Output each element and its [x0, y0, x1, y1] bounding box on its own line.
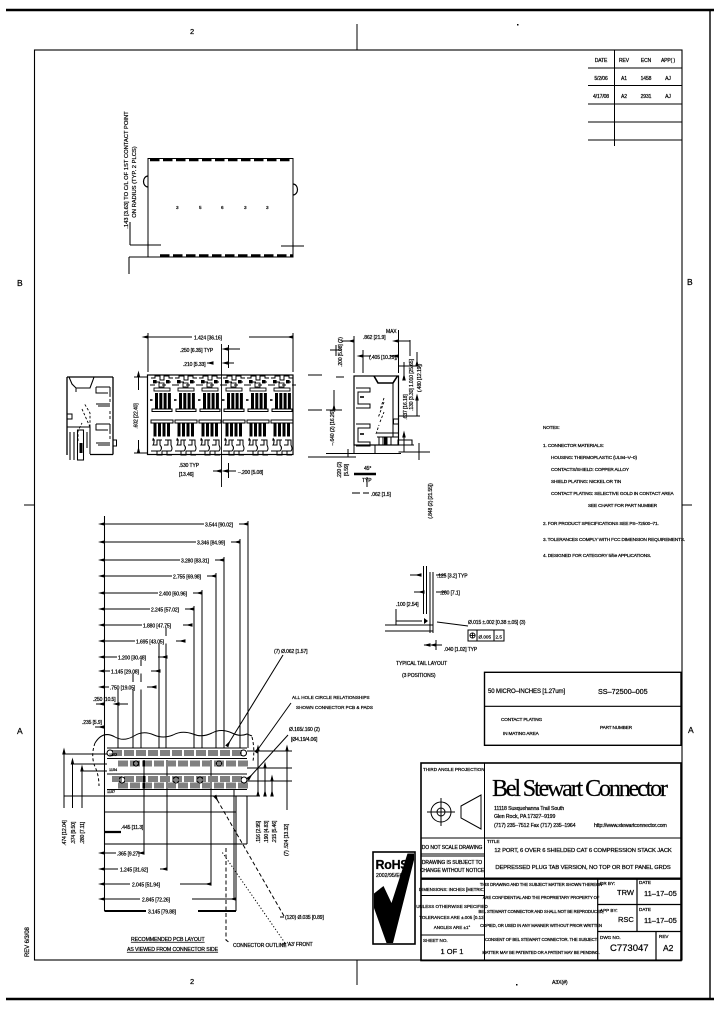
svg-text:4. DESIGNED FOR CATEGORY 5/5e: 4. DESIGNED FOR CATEGORY 5/5e APPLICATIO… [543, 553, 651, 558]
svg-text:TRW: TRW [617, 888, 635, 897]
PCB stacked width dimensions [82, 519, 248, 748]
svg-text:MATTER MAY BE PATENTED OR A PA: MATTER MAY BE PATENTED OR A PATENT MAY B… [482, 950, 599, 955]
svg-text:CONSENT OF BEL STEWART CONNECT: CONSENT OF BEL STEWART CONNECTOR. THE SU… [485, 937, 598, 942]
svg-text:11–17–05: 11–17–05 [644, 916, 677, 925]
svg-text:COPIED, OR USED IN ANY MANNER: COPIED, OR USED IN ANY MANNER WITHOUT PR… [480, 923, 602, 928]
svg-text:5: 5 [199, 205, 202, 210]
svg-text:.200 [5.08] (2): .200 [5.08] (2) [338, 337, 344, 367]
svg-text:.125 [3.2] TYP: .125 [3.2] TYP [437, 574, 468, 580]
svg-text:2.245 [57.02]: 2.245 [57.02] [151, 608, 180, 614]
svg-text:AJ: AJ [665, 76, 671, 82]
svg-text:3: 3 [244, 205, 247, 210]
svg-text:2.5: 2.5 [496, 635, 503, 640]
pad band 2 plated holes [119, 777, 125, 783]
svg-text:.220 (2): .220 (2) [337, 461, 343, 478]
svg-text:THIS DRAWING AND THE SUBJECT M: THIS DRAWING AND THE SUBJECT MATTER SHOW… [480, 882, 602, 887]
svg-text:DIMENSIONS: INCHES [METRIC]: DIMENSIONS: INCHES [METRIC] [419, 887, 485, 892]
svg-text:Glen Rock, PA 17327–9199: Glen Rock, PA 17327–9199 [494, 814, 555, 820]
svg-text:NOTES:: NOTES: [543, 425, 560, 430]
title block main box [421, 763, 681, 961]
svg-text:TITLE: TITLE [487, 839, 500, 844]
svg-text:RSC: RSC [618, 915, 634, 924]
svg-text:ALL HOLE CIRCLE RELATIONSHIPS: ALL HOLE CIRCLE RELATIONSHIPS [292, 695, 370, 700]
svg-text:6: 6 [221, 205, 224, 210]
svg-text:2.045 [51.94]: 2.045 [51.94] [132, 883, 161, 889]
svg-text:A2: A2 [621, 94, 627, 100]
pad band 1 plated holes [107, 750, 113, 756]
svg-text:.100 [2.54]: .100 [2.54] [396, 602, 419, 608]
svg-text:(7) .524 [13.32]: (7) .524 [13.32] [284, 823, 290, 856]
svg-text:(.848 (2) [21.55]): (.848 (2) [21.55]) [428, 483, 434, 519]
svg-text:.445 [11.3]: .445 [11.3] [121, 825, 144, 831]
svg-text:.365 [9.27]: .365 [9.27] [117, 852, 140, 858]
svg-text:Ø.005: Ø.005 [479, 635, 492, 640]
svg-text:SHEET NO.: SHEET NO. [423, 938, 448, 943]
svg-text:'A3' FRONT: 'A3' FRONT [287, 942, 313, 948]
right side view top dims [330, 330, 410, 373]
svg-text:.862 [21.9]: .862 [21.9] [363, 335, 386, 341]
svg-text:(3 POSITIONS): (3 POSITIONS) [402, 673, 436, 679]
svg-text:SHOWN CONNECTOR PCB & PADS: SHOWN CONNECTOR PCB & PADS [296, 705, 373, 710]
svg-text:45°: 45° [364, 466, 371, 472]
svg-text:.602 [22.40]: .602 [22.40] [134, 403, 140, 429]
NOTES [543, 425, 685, 558]
svg-text:(.480 [12.19]): (.480 [12.19]) [417, 363, 423, 392]
PCB right vertical dims [247, 751, 292, 810]
svg-text:1. CONNECTOR MATERIALS:: 1. CONNECTOR MATERIALS: [543, 443, 604, 448]
svg-text:2002/95/EC: 2002/95/EC [376, 873, 404, 879]
front view centerline [221, 344, 223, 487]
svg-text:.215 [5.46]: .215 [5.46] [272, 820, 278, 843]
svg-text:.280 [7.11]: .280 [7.11] [80, 821, 86, 844]
svg-text:TYPICAL TAIL LAYOUT: TYPICAL TAIL LAYOUT [396, 661, 447, 667]
svg-text:.474 [12.04]: .474 [12.04] [62, 820, 68, 846]
top view dimension ticks [129, 222, 304, 274]
svg-text:MAX: MAX [386, 329, 397, 335]
svg-text:DATE: DATE [639, 907, 651, 912]
svg-text:SEE CHART FOR PART NUMBER: SEE CHART FOR PART NUMBER [588, 503, 658, 508]
left side view [67, 377, 117, 460]
svg-text:C773047: C773047 [610, 943, 649, 954]
svg-text:(120) Ø.035 [0.89]: (120) Ø.035 [0.89] [285, 915, 324, 921]
tail GD&T frame [468, 630, 504, 641]
svg-text:TOLERANCES ARE ±.005 [0.13]: TOLERANCES ARE ±.005 [0.13] [419, 915, 485, 920]
projection symbol [427, 795, 481, 829]
svg-text:11–17–05: 11–17–05 [644, 889, 677, 898]
svg-text:CONTACT PLATING: CONTACT PLATING [501, 717, 542, 722]
PCB bottom dimensions [105, 760, 237, 911]
svg-text:THIRD ANGLE PROJECTION: THIRD ANGLE PROJECTION [423, 767, 485, 772]
svg-text:DWG NO.: DWG NO. [600, 935, 621, 940]
svg-text:DATE: DATE [639, 880, 651, 885]
PCB connector outline wavy break line [95, 731, 252, 744]
svg-text:CONTACTS/SHIELD: COPPER ALLOY: CONTACTS/SHIELD: COPPER ALLOY [551, 467, 630, 472]
svg-text:12 PORT, 6 OVER 6 SHIELDED CAT: 12 PORT, 6 OVER 6 SHIELDED CAT 6 COMPRES… [494, 848, 672, 854]
svg-text:.250 [10.5]: .250 [10.5] [93, 697, 116, 703]
svg-text:1.880 [47.75]: 1.880 [47.75] [143, 624, 172, 630]
svg-text:1.695 [43.05]: 1.695 [43.05] [136, 640, 165, 646]
svg-text:APP BY:: APP BY: [600, 908, 618, 913]
svg-text:.235 [5.9]: .235 [5.9] [82, 720, 103, 726]
svg-text:A: A [17, 726, 23, 736]
top view pin marks [176, 205, 269, 210]
RoHS logo [373, 852, 415, 944]
svg-text:2931: 2931 [641, 94, 652, 100]
plating chart box [485, 672, 682, 745]
svg-text:[13.46]: [13.46] [179, 472, 194, 478]
front view width dimension [148, 333, 293, 372]
svg-text:50 MICRO–INCHES [1.27um]: 50 MICRO–INCHES [1.27um] [488, 689, 565, 695]
svg-text:REV: REV [619, 58, 630, 64]
svg-text:.374 [9.50]: .374 [9.50] [71, 821, 77, 844]
svg-text:Bel Stewart Connector: Bel Stewart Connector [492, 776, 668, 802]
svg-text:.040 [1.02] TYP: .040 [1.02] TYP [444, 647, 478, 653]
svg-text:2.845 [72.26]: 2.845 [72.26] [142, 898, 171, 904]
svg-text:1.200 [30.48]: 1.200 [30.48] [118, 656, 147, 662]
svg-text:4/17/08: 4/17/08 [593, 94, 609, 100]
svg-text:(.405 [10.29]): (.405 [10.29]) [369, 355, 398, 361]
svg-text:3.145 [79.88]: 3.145 [79.88] [148, 910, 177, 916]
svg-text:3.544 [90.02]: 3.544 [90.02] [205, 523, 234, 529]
svg-text:.116 [2.95]: .116 [2.95] [256, 820, 262, 843]
svg-text:1157: 1157 [109, 753, 117, 757]
svg-text:DEPRESSED PLUG TAB VERSION, NO: DEPRESSED PLUG TAB VERSION, NO TOP OR BO… [495, 865, 670, 871]
svg-text:APP( ): APP( ) [661, 58, 676, 64]
svg-text:3.346 [84.99]: 3.346 [84.99] [197, 541, 226, 547]
svg-text:3.280 [83.31]: 3.280 [83.31] [181, 559, 210, 565]
svg-text:AJ: AJ [665, 94, 671, 100]
svg-text:ECN: ECN [641, 58, 652, 64]
svg-text:2.755 [69.98]: 2.755 [69.98] [173, 575, 202, 581]
PCB pad band 2 [107, 774, 247, 790]
svg-text:3. TOLERANCES COMPLY WITH FCC: 3. TOLERANCES COMPLY WITH FCC DIMENSION … [543, 537, 685, 542]
svg-text:A2: A2 [663, 943, 674, 953]
PCB left vertical dims [64, 754, 260, 808]
right side view bottom dims [354, 473, 376, 475]
svg-text:.250 [6.35] TYP: .250 [6.35] TYP [180, 348, 214, 354]
svg-text:http://www.stewartconnector.co: http://www.stewartconnector.com [594, 823, 667, 829]
svg-text:REV: REV [659, 934, 669, 939]
PCB connector outline rectangle [105, 796, 248, 844]
svg-text:ANGLES ARE ±1°: ANGLES ARE ±1° [434, 925, 471, 930]
svg-text:1.145 [29.08]: 1.145 [29.08] [111, 670, 140, 676]
svg-text:A: A [688, 725, 694, 735]
svg-text:REV 6/3/08: REV 6/3/08 [25, 927, 31, 957]
svg-text:.530 TYP: .530 TYP [179, 463, 200, 469]
svg-text:1.424 [36.16]: 1.424 [36.16] [194, 336, 223, 342]
svg-text:DATE: DATE [595, 58, 608, 64]
svg-text:5/2/06: 5/2/06 [594, 76, 608, 82]
svg-text:AS VIEWED FROM CONNECTOR SIDE: AS VIEWED FROM CONNECTOR SIDE [127, 947, 219, 953]
svg-text:2.400 [60.96]: 2.400 [60.96] [159, 592, 188, 598]
PCB pad band 1 [107, 748, 247, 759]
front view body [148, 375, 294, 455]
svg-text:Ø.165/.160 (2): Ø.165/.160 (2) [289, 727, 320, 733]
svg-text:2. FOR PRODUCT SPECIFICATIONS: 2. FOR PRODUCT SPECIFICATIONS SEE PS–725… [543, 521, 659, 526]
svg-text:.210 [5.33]: .210 [5.33] [183, 362, 206, 368]
svg-text:11118 Susquehanna Trail South: 11118 Susquehanna Trail South [494, 806, 564, 812]
tail detail [385, 566, 468, 650]
front view height dimension .602 [134, 376, 147, 378]
svg-text:.062 [1.5]: .062 [1.5] [371, 492, 392, 498]
svg-text:SS–72500–005: SS–72500–005 [598, 687, 648, 696]
legal disclaimer [479, 882, 604, 955]
svg-text:ON RADIUS (TYP. 2 PLCS): ON RADIUS (TYP. 2 PLCS) [132, 146, 138, 217]
svg-text:1154: 1154 [109, 768, 117, 772]
svg-text:CHANGE WITHOUT NOTICE: CHANGE WITHOUT NOTICE [420, 868, 485, 874]
PCB layout: left baseline extension [104, 516, 106, 911]
svg-text:DRAWING IS SUBJECT TO: DRAWING IS SUBJECT TO [422, 860, 482, 866]
right side view body [354, 376, 414, 454]
svg-text:1 OF 1: 1 OF 1 [441, 947, 464, 956]
top view rectangle [144, 159, 298, 258]
svg-text:CONNECTOR OUTLINE: CONNECTOR OUTLINE [233, 943, 287, 949]
svg-text:[5.59]: [5.59] [344, 463, 350, 476]
svg-text:2: 2 [190, 27, 194, 36]
svg-text:Ø.015 ±.002 [0.38 ±.05] (3): Ø.015 ±.002 [0.38 ±.05] (3) [468, 620, 526, 626]
svg-text:–.640 (2) [16.26]: –.640 (2) [16.26] [330, 410, 336, 446]
svg-text:RECOMMENDED PCB LAYOUT: RECOMMENDED PCB LAYOUT [131, 937, 205, 943]
svg-text:.750 [19.05]: .750 [19.05] [110, 686, 136, 692]
svg-text:1157: 1157 [107, 790, 115, 794]
svg-text:DO NOT SCALE DRAWING: DO NOT SCALE DRAWING [422, 845, 483, 851]
svg-text:.280 [7.1]: .280 [7.1] [440, 591, 461, 597]
svg-text:A1: A1 [621, 76, 627, 82]
svg-text:IN MATING AREA: IN MATING AREA [503, 731, 540, 736]
svg-text:2: 2 [190, 977, 194, 986]
svg-text:HOUSING: THERMOPLASTIC (UL94–: HOUSING: THERMOPLASTIC (UL94–V–0) [551, 455, 637, 460]
svg-text:3: 3 [176, 205, 179, 210]
svg-text:B: B [17, 278, 23, 288]
svg-text:.143 [3.63] TO C/L OF 1ST CONT: .143 [3.63] TO C/L OF 1ST CONTACT POINT [124, 111, 130, 229]
svg-text:(717) 235–7512 Fax (717) 235: (717) 235–7512 Fax (717) 235–1964 [494, 823, 576, 829]
svg-text:3: 3 [266, 205, 269, 210]
svg-text:.190 [4.83]: .190 [4.83] [264, 820, 270, 843]
svg-text:1.245 [31.62]: 1.245 [31.62] [120, 868, 149, 874]
svg-text:DR BY:: DR BY: [600, 881, 615, 886]
revision table [588, 50, 682, 146]
svg-text:PART NUMBER: PART NUMBER [600, 725, 633, 730]
svg-text:ARE CONFIDENTIAL AND THE PROPR: ARE CONFIDENTIAL AND THE PROPRIETARY PRO… [483, 895, 600, 900]
svg-text:B: B [687, 277, 693, 287]
svg-text:SHIELD PLATING: NICKEL OR TIN: SHIELD PLATING: NICKEL OR TIN [551, 479, 621, 484]
svg-text:[Ø4.19/4.06]: [Ø4.19/4.06] [291, 737, 318, 743]
svg-text:A3X(#): A3X(#) [552, 980, 568, 986]
svg-text:CONTACT PLATING: SELECTIVE GO: CONTACT PLATING: SELECTIVE GOLD IN CONTA… [551, 491, 675, 496]
svg-text:(7) Ø.062 [1.57]: (7) Ø.062 [1.57] [274, 649, 308, 655]
svg-text:BEL STEWART CONNECTOR AND SHAL: BEL STEWART CONNECTOR AND SHALL NOT BE R… [479, 909, 604, 914]
svg-text:1458: 1458 [641, 76, 652, 82]
svg-text:–.200 [5.08]: –.200 [5.08] [238, 470, 264, 476]
